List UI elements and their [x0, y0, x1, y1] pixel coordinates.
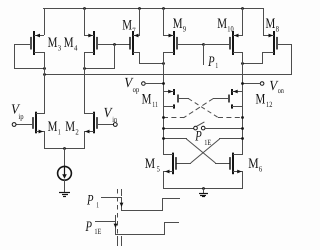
wire M8 source to rail end [263, 8, 265, 35]
terminal Vin [113, 123, 117, 127]
wire M11 gate cross diagonal dashed [188, 99, 218, 118]
wire M6 gate lead [215, 163, 230, 165]
transistor M10 (PMOS clocked) [230, 31, 243, 55]
wire M7 drain down [139, 52, 141, 64]
wire M9 source to rail [163, 8, 165, 35]
transistor M6 (NMOS latch) [230, 153, 243, 175]
svg-text:M: M [48, 119, 58, 135]
wire M7 drain to Vop node [139, 63, 164, 65]
wire M4 gate lead to node A [96, 44, 130, 46]
svg-text:ip: ip [18, 112, 23, 121]
junction M3 gate-drain [43, 67, 46, 70]
wire M12 gate cross diagonal dashed [184, 99, 214, 118]
wire M10 gate lead [203, 44, 230, 46]
switch P1E arm [197, 122, 205, 126]
svg-text:M: M [248, 156, 258, 172]
svg-text:8: 8 [276, 25, 279, 34]
wire M4 gate down [114, 44, 116, 69]
wire M12 gate lead [213, 98, 230, 100]
wire M9 gate lead [177, 44, 204, 46]
svg-text:M: M [142, 91, 152, 107]
wire M8 drain down [262, 52, 264, 64]
transistor M12 (PMOS dummy switch) [229, 89, 243, 109]
wire M11 gate to Von dashed [218, 117, 243, 119]
switch P1E terminal left [194, 126, 198, 130]
junction switch-Vop column [162, 127, 165, 130]
wire M7 source to rail [139, 8, 141, 35]
junction rail-M10 source [241, 7, 244, 10]
svg-text:on: on [278, 86, 284, 95]
label M5 [145, 156, 160, 174]
svg-text:4: 4 [74, 43, 77, 52]
label Von [269, 79, 284, 95]
label M3 [48, 35, 62, 52]
junction dashed-Von [241, 116, 244, 119]
junction latch ground [202, 187, 205, 190]
label M8 [266, 16, 280, 33]
label M4 [64, 35, 78, 52]
label P1E waveform [85, 219, 102, 236]
svg-text:5: 5 [157, 165, 160, 174]
svg-text:M: M [256, 91, 266, 107]
junction switch-Von column [241, 127, 244, 130]
svg-text:M: M [65, 119, 75, 135]
junction M4-M7 gates [113, 43, 116, 46]
junction Vop [162, 82, 165, 85]
wire M3 source to rail [44, 8, 46, 35]
label M9 [173, 16, 187, 33]
wire M6 gate diagonal [186, 139, 215, 163]
marker P1 fall tick bottom [121, 236, 123, 246]
junction rail-M9 source [162, 7, 165, 10]
svg-text:P: P [86, 192, 93, 208]
transistor M5 (NMOS latch) [163, 153, 176, 175]
svg-text:P: P [85, 219, 92, 235]
terminal Vip [12, 123, 16, 127]
transistor M9 (PMOS clocked) [163, 31, 177, 55]
svg-text:1: 1 [215, 61, 218, 70]
label P1E switch [194, 129, 211, 148]
marker P1E fall pre-tick [115, 215, 117, 221]
svg-text:op: op [133, 85, 140, 94]
svg-text:1E: 1E [204, 138, 211, 147]
wire M5 gate lead [176, 163, 191, 165]
wire VDD rail [43, 8, 264, 10]
wire Vop lead [145, 83, 164, 85]
svg-text:1: 1 [96, 201, 99, 210]
wire tail node [44, 148, 85, 150]
wire M6 drain cross bar right [219, 138, 243, 140]
junction rail-M7 source [138, 7, 141, 10]
svg-text:9: 9 [183, 25, 186, 34]
svg-text:in: in [112, 115, 117, 124]
label P1 waveform [86, 192, 99, 209]
transistor M3 (PMOS diode load) [31, 31, 44, 55]
marker P1E fall dashed [117, 189, 119, 235]
marker P1 fall tick top [121, 189, 123, 196]
ground tail [59, 193, 70, 197]
transistor M11 (PMOS dummy switch) [163, 89, 178, 109]
wire P1 stub [203, 44, 205, 65]
svg-text:3: 3 [58, 43, 61, 52]
wire M3 gate lead [14, 44, 32, 46]
label M10 [217, 16, 234, 33]
waveform P1 [101, 197, 180, 211]
transistor M4 (PMOS diode) [84, 31, 97, 55]
wire M4 source to rail [84, 8, 86, 35]
svg-text:2: 2 [75, 128, 78, 137]
wire M11 gate lead [177, 98, 189, 100]
wire M5 source down [163, 171, 165, 189]
label Vip [11, 102, 24, 121]
wire M4 drain to M2 drain column [84, 52, 86, 114]
junction Von [241, 82, 244, 85]
transistor M2 (NMOS input) [84, 112, 97, 134]
wire M5 drain cross bar left [163, 138, 187, 140]
wire M12 gate to Vop dashed [163, 117, 184, 119]
svg-text:11: 11 [152, 100, 158, 109]
junction cross-Vop column [162, 137, 165, 140]
wire M5 gate diagonal [191, 139, 220, 163]
wire tail to current source [64, 148, 66, 166]
svg-text:M: M [217, 16, 227, 32]
wire current source to ground [64, 180, 66, 193]
svg-text:M: M [145, 156, 155, 172]
svg-text:1: 1 [58, 128, 61, 137]
wire M8 drain to Von node [242, 63, 263, 65]
svg-text:M: M [48, 35, 58, 51]
svg-text:M: M [173, 16, 183, 32]
label M2 [65, 119, 79, 137]
svg-text:P: P [194, 129, 201, 145]
svg-text:1E: 1E [94, 227, 101, 236]
label M12 [256, 91, 273, 109]
switch P1E terminal right [201, 126, 205, 130]
terminal Von [260, 82, 264, 86]
wire Von column [242, 52, 244, 154]
wire Von lead [242, 83, 261, 85]
wire M1 source down [44, 131, 46, 149]
wire M3 drain to M1 drain column [44, 52, 46, 114]
label M7 [122, 18, 136, 36]
junction bias-M3 drain [43, 73, 46, 76]
wire switch left lead [163, 128, 194, 130]
label Vop [124, 76, 139, 94]
transistor M1 (NMOS input) [33, 112, 44, 134]
transistor M8 (PMOS) [262, 31, 277, 55]
wire M10 source to rail [242, 8, 244, 35]
label Vin [104, 106, 118, 124]
wire M3 gate wrap down [14, 44, 16, 69]
wire M4 gate to M4 drain [84, 68, 115, 70]
wire bias line from M3 drain to M8 gate [44, 74, 292, 76]
wire switch right lead [205, 128, 243, 130]
wire Vop column [163, 52, 165, 154]
wire M8 gate lead [277, 44, 292, 46]
wire M3 gate wrap to drain [14, 68, 44, 70]
wire M2 source down [84, 131, 86, 149]
label M6 [248, 156, 262, 174]
ground latch [199, 188, 208, 197]
svg-text:12: 12 [266, 100, 272, 109]
wire latch source rail [163, 188, 243, 190]
svg-text:7: 7 [132, 26, 135, 35]
svg-text:P: P [207, 54, 214, 70]
svg-text:M: M [266, 16, 276, 32]
junction cross-Von column [241, 137, 244, 140]
wire M1 gate lead [16, 124, 34, 126]
svg-text:M: M [122, 18, 132, 34]
junction P1 gates node [202, 43, 205, 46]
wire M2 gate lead [96, 124, 114, 126]
svg-text:M: M [64, 35, 74, 51]
wire M6 source down [242, 171, 244, 189]
junction M4 gate-drain [83, 67, 86, 70]
label P1 clock node [207, 54, 218, 70]
svg-text:6: 6 [259, 165, 262, 174]
junction M8/M10 drains [241, 62, 244, 65]
junction rail-M4 source [83, 7, 86, 10]
junction tail [63, 147, 66, 150]
waveform P1E [95, 221, 179, 235]
transistor M7 (PMOS) [130, 31, 140, 55]
terminal Vop [142, 82, 146, 86]
wire M8 gate wrap down [291, 44, 293, 75]
junction dashed-Vop [162, 116, 165, 119]
label M1 [48, 119, 61, 137]
current source I1 [58, 166, 72, 180]
svg-text:10: 10 [227, 25, 233, 34]
junction M7/M9 drains [162, 62, 165, 65]
label M11 [142, 91, 158, 109]
